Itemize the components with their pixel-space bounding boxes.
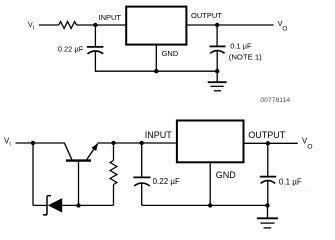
wire to zener cathode [33, 204, 47, 206]
svg-text:OUTPUT: OUTPUT [191, 11, 222, 20]
wire regulator OUTPUT to VO (bottom circuit) [245, 142, 298, 144]
wire GND lead (top circuit) [155, 46, 157, 72]
wire resistor to regulator INPUT [77, 24, 126, 26]
junction dot output node (bottom circuit) [266, 141, 270, 145]
wire zener to resistor bottom [62, 204, 113, 206]
ground symbol (bottom circuit) [257, 205, 278, 228]
wire regulator OUTPUT to VO [187, 24, 273, 26]
capacitor C4 0.1uF (bottom circuit) [260, 143, 276, 205]
regulator U1 (top circuit) [126, 7, 186, 45]
wire VI to collector [16, 142, 65, 144]
node VO label (bottom circuit) [302, 137, 313, 151]
node VO label (top circuit) [278, 21, 288, 33]
label OUTPUT (bottom circuit) [248, 130, 285, 140]
wire ground rail (top circuit) [95, 70, 217, 72]
junction dot GND-rail (bottom circuit) [208, 203, 212, 207]
label 0.1 uF (bottom circuit) [279, 178, 302, 187]
resistor R2 (vertical) [110, 143, 117, 205]
ground symbol (top circuit) [208, 71, 227, 91]
svg-text:INPUT: INPUT [145, 130, 173, 140]
label INPUT (bottom circuit) [145, 130, 173, 140]
wire VI branch down [32, 143, 34, 205]
junction dot input cap node (bottom circuit) [140, 141, 144, 145]
svg-text:00778114: 00778114 [260, 97, 290, 104]
zener diode D1 [43, 196, 62, 215]
label OUTPUT (top circuit) [191, 11, 222, 20]
junction dot output node (top circuit) [215, 23, 219, 27]
svg-text:0.1 µF: 0.1 µF [279, 178, 302, 187]
capacitor C3 0.22uF (bottom circuit) [133, 143, 150, 205]
faint figure number 00778115 [283, 187, 312, 194]
figure number 00778114 [260, 97, 290, 104]
junction dot resistor top [111, 141, 115, 145]
svg-text:OUTPUT: OUTPUT [248, 130, 285, 140]
svg-text:0.22 µF: 0.22 µF [153, 177, 180, 186]
junction dot cap-rail (top circuit) [215, 69, 219, 73]
svg-text:0.1 µF: 0.1 µF [230, 41, 252, 50]
regulator U2 (bottom circuit) [177, 121, 244, 163]
resistor R1 [59, 22, 77, 29]
label 0.1 uF (top circuit) [230, 41, 252, 50]
svg-text:(NOTE 1): (NOTE 1) [229, 53, 262, 62]
label GND pin (bottom circuit) [216, 170, 237, 180]
node VI label (bottom circuit) [4, 137, 11, 148]
junction dot VI node (bottom circuit) [31, 141, 35, 145]
junction dot input node (top circuit) [93, 23, 97, 27]
junction dot base node [76, 203, 80, 207]
svg-text:00778115: 00778115 [283, 187, 312, 194]
transistor Q1 [64, 143, 98, 161]
label 0.22 uF (bottom circuit) [153, 177, 180, 186]
capacitor C2 0.1uF (top circuit) [210, 25, 226, 71]
label 0.22 uF (top circuit) [58, 45, 84, 54]
svg-text:0.22 µF: 0.22 µF [58, 45, 84, 54]
svg-text:INPUT: INPUT [99, 13, 122, 22]
svg-text:GND: GND [216, 170, 237, 180]
wire VI to resistor [39, 24, 59, 26]
capacitor C1 0.22uF (top circuit) [87, 25, 104, 71]
wire GND lead (bottom circuit) [209, 163, 211, 205]
wire ground rail (bottom circuit) [142, 204, 268, 206]
label INPUT (top circuit) [99, 13, 122, 22]
node VI label (top circuit) [28, 22, 35, 31]
junction dot GND-rail (top circuit) [154, 69, 158, 73]
svg-text:GND: GND [162, 49, 179, 58]
junction dot cap-rail (bottom circuit) [265, 203, 269, 207]
label NOTE 1 (top circuit) [229, 53, 262, 62]
label GND pin (top circuit) [162, 49, 179, 58]
wire base lead [78, 162, 80, 206]
wire emitter to regulator INPUT [98, 142, 176, 144]
